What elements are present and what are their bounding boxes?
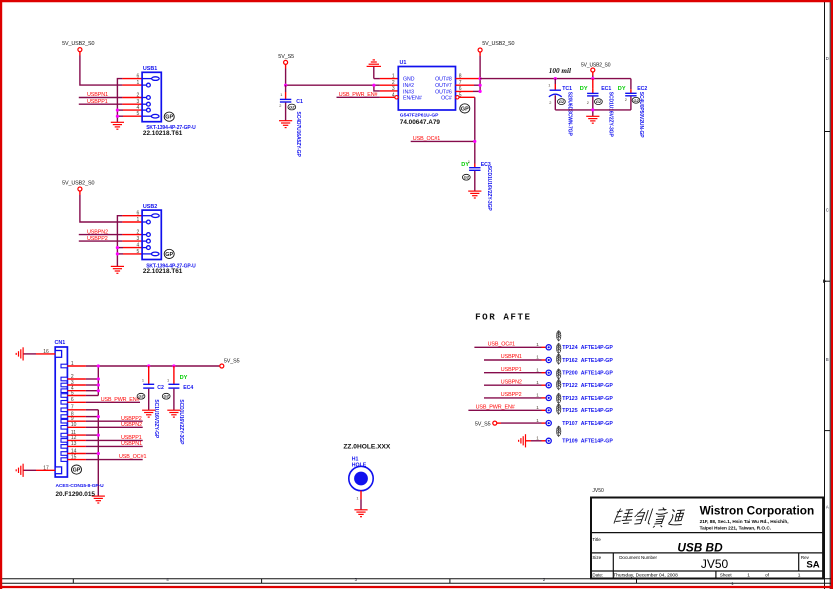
svg-text:21F, 88, Sec.1, Hsin Tai Wu Rd: 21F, 88, Sec.1, Hsin Tai Wu Rd., Hsichih… (700, 519, 789, 524)
svg-text:3: 3 (392, 86, 395, 92)
wire USBPN1 to TP162 (484, 359, 546, 361)
test point TP109 (536, 426, 613, 445)
svg-text:1: 1 (142, 378, 144, 383)
test point TP162 (536, 343, 613, 364)
svg-text:100 mil: 100 mil (549, 67, 571, 75)
capacitor EC1 (580, 79, 612, 110)
svg-text:GP: GP (165, 115, 173, 121)
svg-text:22.10218.T61: 22.10218.T61 (143, 130, 183, 137)
svg-text:AFTE14P-GP: AFTE14P-GP (581, 371, 614, 377)
svg-text:GP: GP (461, 106, 469, 112)
svg-text:Wistron Corporation: Wistron Corporation (700, 504, 815, 518)
net label USB_PWR_EN# (U1) (339, 92, 378, 98)
svg-text:1: 1 (536, 418, 539, 423)
power 5V_USB2_S0 (USB1) (62, 41, 94, 51)
part text EC4 (178, 399, 184, 445)
svg-text:SC4D7U16A5ZY-GP: SC4D7U16A5ZY-GP (295, 112, 301, 158)
power 5V_S5 (TP107) (475, 421, 497, 427)
net label USBPN1 (87, 92, 108, 98)
power 5V_S5 (U1) (278, 54, 294, 64)
svg-text:CN1: CN1 (55, 340, 66, 346)
svg-text:USBPP2: USBPP2 (121, 416, 142, 422)
net label USB_OC#1 (AFTE) (488, 341, 515, 347)
svg-text:Thursday, December 04, 2008: Thursday, December 04, 2008 (613, 573, 678, 579)
svg-text:OUT#6: OUT#6 (435, 90, 452, 96)
svg-text:A: A (826, 505, 829, 510)
ground (C1) (279, 121, 292, 128)
svg-text:IN#2: IN#2 (403, 83, 414, 89)
svg-text:TP124: TP124 (562, 345, 577, 351)
svg-text:G547F2P61U-GP: G547F2P61U-GP (400, 112, 439, 118)
svg-text:SA: SA (806, 559, 819, 570)
svg-text:5V_USB2_S0: 5V_USB2_S0 (62, 181, 94, 187)
connector CN1 (43, 340, 76, 477)
wire CN1 pin2 stub (67, 378, 98, 380)
ground (EC4) (167, 410, 180, 417)
wire USB_PWR_EN# to TP125 (468, 409, 546, 411)
svg-text:1: 1 (536, 380, 539, 385)
svg-text:EN/EN#: EN/EN# (403, 96, 422, 102)
svg-text:SCD1U16V2ZY-3GP: SCD1U16V2ZY-3GP (178, 399, 184, 445)
wire CN1 pin16 to ground (23, 353, 55, 355)
svg-text:DY: DY (180, 375, 188, 381)
svg-text:G2: G2 (164, 394, 170, 399)
net label USBPP1 (87, 99, 108, 105)
wire USB_OC#1 to TP124 (474, 346, 546, 348)
wire U1 outputs bus (456, 52, 481, 91)
svg-text:1: 1 (167, 378, 169, 383)
net label USBPP2 (AFTE) (501, 392, 522, 398)
svg-text:74.00647.A79: 74.00647.A79 (400, 119, 441, 126)
wire CN1 pin6 USB_PWR_EN# (67, 401, 140, 403)
ground (EC3) (468, 191, 481, 198)
svg-text:S20U6D3CWN-7GP: S20U6D3CWN-7GP (566, 92, 572, 137)
wire USBPP1 to TP200 (484, 372, 546, 374)
wire USBPP2 to USB2 pin 3 (79, 240, 142, 242)
svg-text:1: 1 (137, 80, 140, 86)
svg-text:USB_PWR_EN#: USB_PWR_EN# (476, 404, 515, 410)
svg-text:G2: G2 (596, 99, 602, 104)
wire USB_PWR_EN# to U1 EN pin (337, 96, 395, 98)
svg-text:GND: GND (403, 77, 415, 83)
wire ground to TP109 (526, 440, 547, 442)
capacitor C2 (137, 366, 164, 410)
junction USB1 pin5 (116, 115, 119, 118)
note ZZ.0HOLE.XXX (343, 444, 390, 451)
svg-text:AFTE14P-GP: AFTE14P-GP (581, 396, 614, 402)
wire USB1 pin 5 stub (117, 115, 142, 117)
capacitor C1 (279, 85, 303, 121)
junction OUT6 (479, 90, 482, 93)
svg-text:3: 3 (137, 236, 140, 242)
junction TC1 top (554, 77, 557, 80)
svg-text:IN#3: IN#3 (403, 90, 414, 96)
svg-text:AFTE14P-GP: AFTE14P-GP (581, 408, 614, 414)
net label USBPN1 (CN1) (121, 441, 142, 447)
svg-text:Title: Title (592, 537, 601, 542)
capacitor EC4 (162, 366, 193, 410)
svg-text:2: 2 (137, 93, 140, 99)
net label USB_PWR_EN# (CN1) (101, 397, 140, 403)
junction EC1 top (591, 77, 594, 80)
net label USB_PWR_EN# (AFTE) (476, 404, 515, 410)
junction OUT8 (479, 77, 482, 80)
svg-text:1: 1 (468, 159, 470, 164)
svg-text:USBPP1: USBPP1 (501, 367, 522, 373)
svg-text:JV50: JV50 (592, 488, 604, 494)
svg-text:1: 1 (536, 393, 539, 398)
connector USB2 (137, 204, 162, 260)
svg-text:USBPP1: USBPP1 (87, 99, 108, 105)
net label USBPN1 (AFTE) (501, 354, 522, 360)
junction CN1 pin14 (97, 452, 100, 455)
svg-text:TP107: TP107 (562, 421, 577, 427)
junction OUT7 (479, 84, 482, 87)
connector USB1 (137, 66, 162, 122)
net label USBPP1 (CN1) (121, 435, 142, 441)
part text U1 (400, 112, 441, 126)
net label USBPN2 (AFTE) (501, 379, 522, 385)
wire ground bus USB1 (117, 79, 142, 123)
svg-text:JV50: JV50 (701, 557, 729, 571)
test point TP200 (536, 354, 613, 377)
svg-text:5V_S5: 5V_S5 (475, 421, 491, 427)
ground (H1) (354, 510, 367, 517)
svg-text:AFTE14P-GP: AFTE14P-GP (581, 383, 614, 389)
junction C2 top (147, 364, 150, 367)
svg-text:2: 2 (587, 100, 589, 105)
svg-text:Date:: Date: (592, 573, 603, 578)
svg-text:G2: G2 (289, 105, 295, 110)
svg-text:TP125: TP125 (562, 408, 577, 414)
svg-text:B: B (826, 357, 829, 362)
svg-text:FOR AFTE: FOR AFTE (475, 312, 532, 323)
svg-text:D: D (826, 56, 829, 61)
svg-text:2: 2 (549, 100, 551, 105)
capacitor EC3 (461, 159, 491, 191)
svg-text:4: 4 (137, 243, 140, 249)
net label USBPP2 (CN1) (121, 416, 142, 422)
op-amp U1 (power switch IC) (392, 60, 462, 110)
wire OC# down to EC3 (459, 97, 475, 167)
wire top bus 100mil (480, 72, 631, 78)
wire CN1 pin8 stub (67, 416, 98, 418)
svg-text:G2: G2 (464, 175, 470, 180)
net label USBPN2 (87, 229, 108, 235)
svg-text:AFTE14P-GP: AFTE14P-GP (581, 439, 614, 445)
svg-text:2: 2 (279, 103, 281, 108)
svg-text:SCD1U16V2ZY-3GP: SCD1U16V2ZY-3GP (486, 166, 492, 212)
svg-text:Sheet: Sheet (720, 573, 733, 578)
note 100 mil (549, 67, 571, 75)
svg-text:1: 1 (280, 92, 282, 97)
title block (591, 488, 823, 578)
GP stamp CN1 (72, 465, 82, 474)
wire CN1 pin5 stub (67, 395, 98, 397)
svg-text:USBPN2: USBPN2 (87, 229, 108, 235)
svg-text:1: 1 (356, 496, 358, 501)
svg-text:1: 1 (536, 367, 539, 372)
wire CN1 pin15 USB_OC#1 (67, 459, 142, 461)
power 5V_USB2_S0 (USB2) (62, 181, 94, 191)
wire bottom bus 100mil (555, 110, 631, 116)
wire CN1 pin9 USBPP2 (67, 420, 142, 422)
svg-text:1: 1 (392, 74, 395, 80)
junction CN1 pin4 (97, 389, 100, 392)
part text EC3 (486, 166, 492, 212)
wire USBPN2 to TP122 (484, 384, 546, 386)
capacitor EC2 (618, 79, 648, 110)
wire USB2 pin 4 stub (117, 247, 142, 249)
net label USBPP2 (87, 236, 108, 242)
wire bus2 CN1 ground pins (67, 410, 98, 496)
power 5V_USB2_S0 (caps) (581, 62, 611, 72)
wire USBPN1 to USB1 pin 2 (79, 97, 142, 99)
svg-text:AFTE14P-GP: AFTE14P-GP (581, 358, 614, 364)
svg-text:USB1: USB1 (143, 66, 157, 72)
svg-text:5: 5 (137, 249, 140, 255)
wire CN1 pin3 stub (67, 384, 98, 386)
svg-text:4: 4 (392, 92, 395, 98)
part text TC1 (566, 92, 572, 137)
wire USB1 pin 4 stub (117, 109, 142, 111)
svg-text:1: 1 (747, 573, 750, 579)
svg-text:5V_USB2_S0: 5V_USB2_S0 (581, 62, 611, 68)
wire CN1 pin12 USBPP1 (67, 439, 142, 441)
junction CN1 pin1 bus (97, 364, 100, 367)
wire 5V_S5 to U1 IN#2 (286, 65, 399, 86)
svg-text:USB BD: USB BD (677, 540, 723, 554)
wire 5V_S5 to TP107 (497, 422, 546, 424)
svg-text:USBPP2: USBPP2 (87, 236, 108, 242)
svg-text:USB_OC#1: USB_OC#1 (119, 454, 146, 460)
svg-text:USBPN2: USBPN2 (121, 422, 142, 428)
svg-text:ZZ.0HOLE.XXX: ZZ.0HOLE.XXX (343, 444, 390, 451)
svg-text:5V_USB2_S0: 5V_USB2_S0 (62, 41, 94, 47)
svg-text:1: 1 (548, 83, 550, 88)
part text CN1 (56, 483, 105, 498)
test point TP107 (536, 404, 613, 428)
svg-text:AFTE14P-GP: AFTE14P-GP (581, 421, 614, 427)
svg-text:5V_USB2_S0: 5V_USB2_S0 (482, 41, 514, 47)
svg-text:OC#: OC# (441, 96, 452, 102)
junction IN#3 branch (372, 84, 375, 87)
svg-text:1: 1 (536, 342, 539, 347)
svg-text:U1: U1 (400, 60, 407, 66)
part text C1 (295, 112, 301, 158)
net label USB_OC#1 (413, 136, 440, 142)
wire USBPN2 to USB2 pin 2 (79, 234, 142, 236)
svg-text:AFTE14P-GP: AFTE14P-GP (581, 345, 614, 351)
wire bus1 CN1 power pins (97, 366, 99, 396)
wire 5V_USB2_S0 to USB1 pin 1 (80, 52, 142, 85)
svg-text:TP109: TP109 (562, 439, 577, 445)
svg-text:6: 6 (137, 211, 140, 217)
svg-text:TP200: TP200 (562, 371, 577, 377)
ground (CN1 pin16) (16, 347, 23, 360)
test point TP125 (536, 393, 613, 414)
wire ground bus USB2 (117, 216, 142, 267)
svg-text:USBPN2: USBPN2 (501, 379, 522, 385)
power 5V_USB2_S0 (U1 outputs) (478, 41, 514, 52)
net label USBPP1 (AFTE) (501, 367, 522, 373)
svg-text:Document Number: Document Number (619, 555, 657, 560)
svg-text:Taipei Hsien 221, Taiwan, R.O.: Taipei Hsien 221, Taiwan, R.O.C. (700, 526, 771, 531)
svg-text:G2: G2 (559, 99, 565, 104)
net label USB_OC#1 (CN1) (119, 454, 146, 460)
junction USB2 pin4 (116, 246, 119, 249)
wire USBPP1 to USB1 pin 3 (79, 103, 142, 105)
junction USB_OC#1 (473, 140, 476, 143)
wire CN1 pin4 stub (67, 390, 98, 392)
note FOR AFTE (475, 312, 532, 323)
wire CN1 pin17 to ground (23, 469, 55, 471)
part text EC1 (608, 92, 614, 138)
svg-text:EC4: EC4 (183, 385, 193, 391)
svg-text:USBPN1: USBPN1 (87, 92, 108, 98)
svg-text:OUT#8: OUT#8 (435, 77, 452, 83)
junction CN1 pin8 (97, 415, 100, 418)
svg-text:20.F1290.015: 20.F1290.015 (56, 491, 96, 498)
svg-text:G2: G2 (138, 394, 144, 399)
svg-text:GP: GP (73, 468, 81, 474)
svg-text:OUT#7: OUT#7 (435, 83, 452, 89)
wire 5V_USB2_S0 to USB2 pin 1 (80, 191, 142, 222)
wire USBPP2 to TP123 (484, 397, 546, 399)
test point TP122 (536, 368, 613, 389)
wire USB_OC#1 (411, 140, 475, 142)
ground (TP109) (519, 434, 526, 447)
svg-text:TP122: TP122 (562, 383, 577, 389)
svg-text:1: 1 (536, 405, 539, 410)
wire USB2 pin 5 stub (117, 253, 142, 255)
svg-text:5V_S5: 5V_S5 (224, 358, 240, 364)
svg-text:SC4U0P50V2UN-GP: SC4U0P50V2UN-GP (638, 92, 644, 139)
ground (100mil caps) (586, 116, 599, 123)
power 5V_S5 (CN1) (220, 358, 240, 368)
svg-text:5: 5 (137, 111, 140, 117)
part text C2 (153, 399, 159, 438)
wire branch to U1 IN#3 (374, 85, 398, 91)
svg-text:22.10218.T61: 22.10218.T61 (143, 268, 183, 275)
junction CN1 pin11 (97, 434, 100, 437)
svg-text:TP123: TP123 (562, 396, 577, 402)
svg-text:2: 2 (625, 97, 627, 102)
svg-text:SC1U16V3ZY-GP: SC1U16V3ZY-GP (153, 399, 159, 438)
GP stamp USB1 (164, 112, 174, 121)
test point TP123 (536, 379, 613, 402)
wire CN1 pin1 5V_S5 (67, 365, 219, 367)
svg-text:Size: Size (592, 555, 601, 560)
svg-text:5V_S5: 5V_S5 (278, 54, 294, 60)
net label USBPN2 (CN1) (121, 422, 142, 428)
svg-text:SCD1U16V2ZY-3GP: SCD1U16V2ZY-3GP (608, 92, 614, 138)
junction EC4 top (172, 364, 175, 367)
test point TP124 (536, 330, 613, 351)
GP stamp U1 (460, 104, 470, 113)
part text USB1 (143, 125, 196, 137)
svg-text:1: 1 (137, 217, 140, 223)
ground (USB2) (111, 266, 124, 273)
part text USB2 (143, 263, 196, 275)
svg-text:C2: C2 (157, 385, 164, 391)
svg-text:USB2: USB2 (143, 204, 157, 210)
ground (CN1 pin17) (16, 464, 23, 477)
svg-text:4: 4 (137, 105, 140, 111)
ground (C2) (142, 410, 155, 417)
svg-text:TP162: TP162 (562, 358, 577, 364)
svg-text:C1: C1 (296, 99, 303, 105)
svg-text:USBPN1: USBPN1 (121, 441, 142, 447)
ground (USB1) (111, 122, 124, 129)
svg-text:DY: DY (580, 86, 588, 92)
svg-text:6: 6 (137, 74, 140, 80)
junction USB2 pin5 (116, 252, 119, 255)
part text EC2 (638, 92, 644, 139)
svg-text:C: C (826, 208, 829, 213)
GP stamp USB2 (164, 249, 174, 258)
wire CN1 pin10 USBPN2 (67, 426, 142, 428)
capacitor TC1 (polarized) (548, 79, 572, 110)
wire CN1 pin13 USBPN1 (67, 445, 142, 447)
ground (CN1 bus2) (92, 496, 105, 503)
svg-text:USBPN1: USBPN1 (501, 354, 522, 360)
junction USB1 pin4 (116, 109, 119, 112)
junction 5V_S5 at C1 (284, 84, 287, 87)
junction CN1 pin3 (97, 383, 100, 386)
svg-text:USBPP2: USBPP2 (501, 392, 522, 398)
wire CN1 pin14 stub (67, 453, 98, 455)
junction CN1 pin2 (97, 377, 100, 380)
svg-text:1: 1 (798, 573, 801, 579)
svg-text:USB_OC#1: USB_OC#1 (488, 341, 515, 347)
wire CN1 pin11 stub (67, 434, 98, 436)
mounting hole H1 (349, 457, 373, 491)
ground (U1 GND pin, inverted) (367, 60, 399, 79)
svg-text:1: 1 (536, 355, 539, 360)
junction EC1 bottom (591, 108, 594, 111)
svg-text:ACES-CON15-8-GP-U: ACES-CON15-8-GP-U (56, 483, 105, 489)
wire H1 to ground (356, 491, 361, 510)
svg-text:DY: DY (618, 86, 626, 92)
svg-text:2: 2 (137, 230, 140, 236)
svg-text:GP: GP (165, 252, 173, 258)
svg-text:USB_PWR_EN#: USB_PWR_EN# (101, 397, 140, 403)
svg-text:1: 1 (536, 436, 539, 441)
